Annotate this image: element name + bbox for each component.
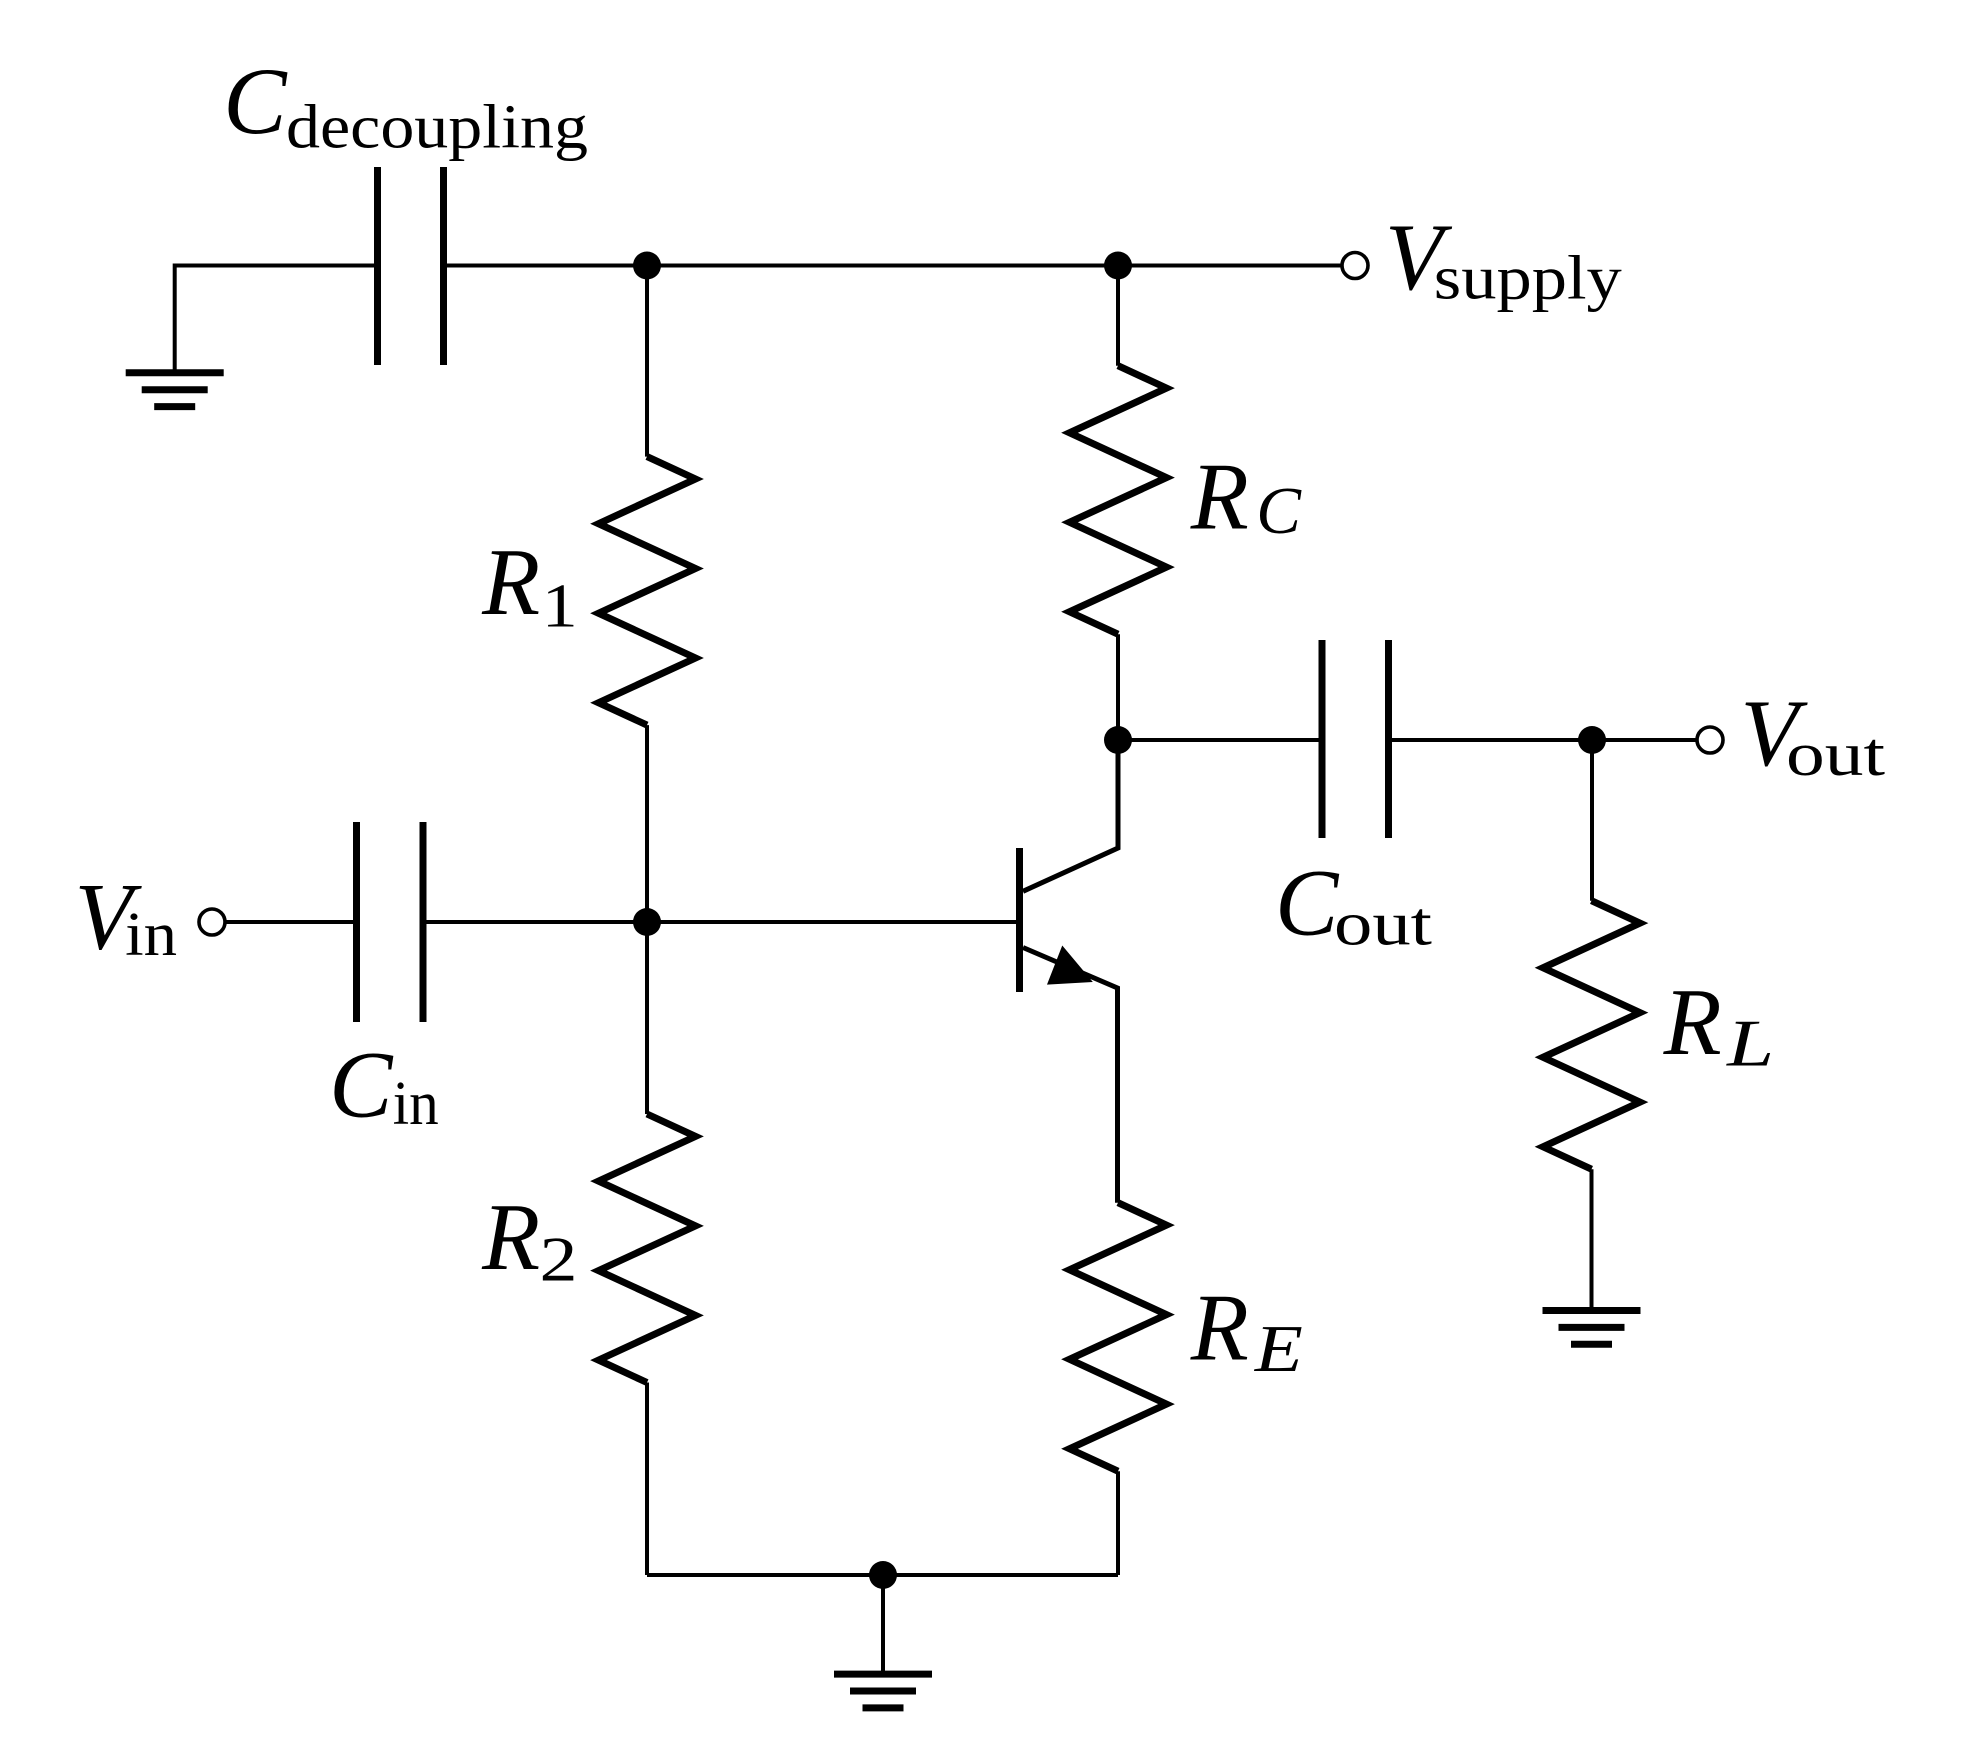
svg-text:C: C [329,1031,394,1137]
node junction bottom ground [869,1561,897,1589]
wire V_in to C_in [226,920,353,924]
ground (bottom centre) [834,1671,932,1678]
svg-text:C: C [223,48,288,154]
resistor R_L [1590,740,1594,901]
svg-text:R: R [1190,443,1249,549]
ground (top left) [126,369,224,376]
terminal V_out (open circle) [1697,727,1723,753]
node junction at R1 top [633,252,661,280]
capacitor C_decoupling [374,167,381,365]
svg-text:R: R [481,529,540,635]
transistor Q1 collector lead [1023,740,1118,891]
svg-text:C: C [1275,850,1340,956]
svg-text:C: C [1256,474,1302,548]
svg-text:decoupling: decoupling [286,94,588,162]
resistor R_E [1070,1203,1167,1472]
svg-text:2: 2 [540,1224,578,1295]
resistor R2 [645,922,649,1114]
node junction at R_C top [1104,252,1132,280]
transistor Q1 (NPN) base bar [1016,848,1023,992]
svg-text:1: 1 [542,572,578,640]
wire: top rail right segment (C_decoupling to V_supply terminal) [447,264,1341,268]
svg-text:out: out [1786,721,1885,789]
svg-text:supply: supply [1434,245,1622,313]
terminal V_in (open circle) [199,909,225,935]
node junction at collector / C_out [1104,726,1132,754]
ground (below R_L) [1543,1307,1641,1314]
svg-text:R: R [481,1184,540,1290]
resistor R1 [645,266,649,457]
wire C_in to base node and on to transistor base [426,920,1016,924]
svg-text:in: in [393,1070,439,1138]
resistor R_C [1116,266,1120,366]
capacitor C_out [1319,640,1326,838]
terminal V_supply (open circle) [1342,253,1368,279]
svg-text:R: R [1190,1275,1249,1381]
svg-text:E: E [1254,1312,1303,1386]
transistor Q1 emitter arrow [1048,947,1091,984]
wire collector node to C_out [1118,738,1319,742]
svg-text:L: L [1726,1006,1774,1080]
wire: top rail left segment (ground corner to C_decoupling left plate) [175,266,375,373]
svg-text:out: out [1334,891,1432,959]
svg-text:in: in [125,901,177,969]
wire bottom rail (R2 bottom to R_E bottom) [647,1573,1118,1577]
capacitor C_in [353,822,360,1022]
node junction at V_out [1578,726,1606,754]
wire C_out to V_out node [1392,738,1696,742]
transistor Q1 emitter lead [1023,948,1118,1203]
wire node to bottom ground [881,1575,885,1674]
svg-text:R: R [1663,969,1722,1075]
node junction at base (B) [633,908,661,936]
